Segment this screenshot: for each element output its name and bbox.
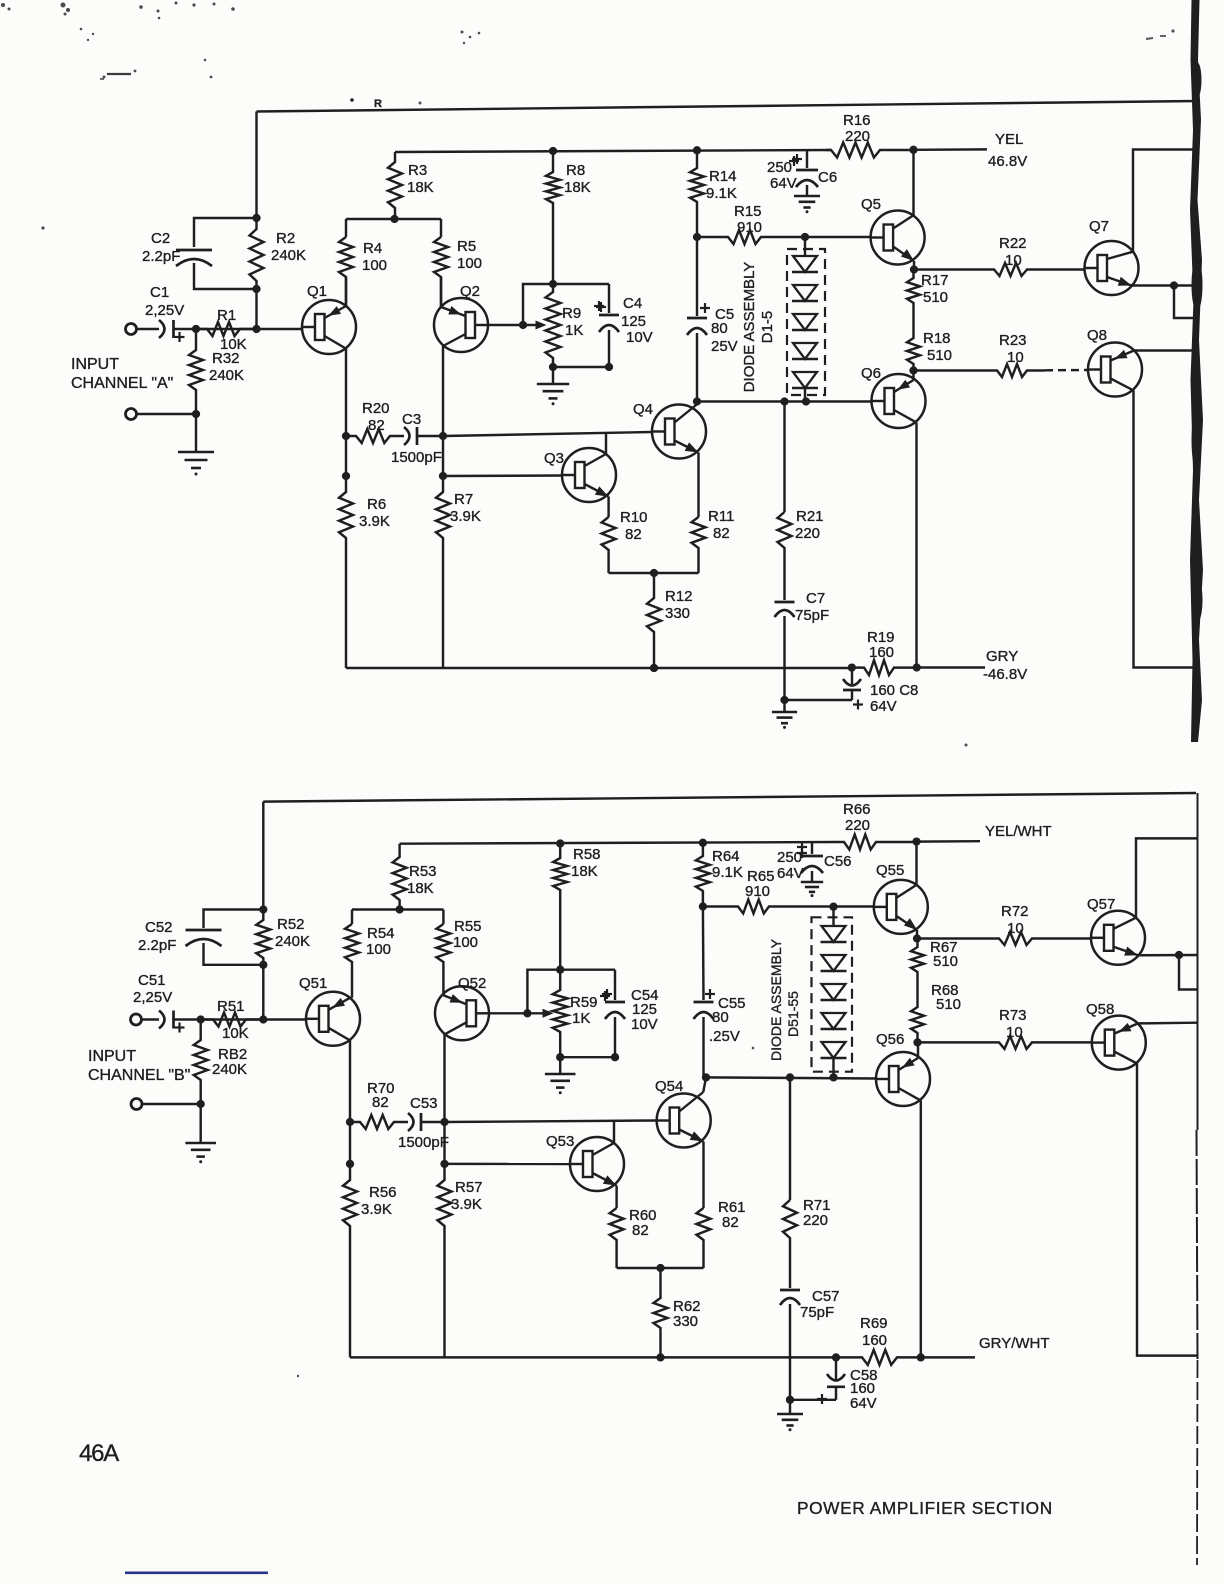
svg-text:Q52: Q52 (458, 975, 486, 992)
svg-text:82: 82 (372, 1094, 389, 1111)
svg-text:18K: 18K (407, 880, 434, 897)
svg-text:Q7: Q7 (1089, 218, 1109, 235)
svg-text:Q3: Q3 (544, 450, 564, 467)
svg-text:D51-55: D51-55 (785, 991, 801, 1037)
svg-text:Q5: Q5 (861, 196, 881, 213)
svg-text:80: 80 (711, 320, 728, 337)
svg-text:220: 220 (795, 525, 820, 542)
svg-text:64V: 64V (870, 698, 897, 715)
svg-text:R59: R59 (570, 994, 598, 1011)
svg-text:R54: R54 (367, 925, 395, 942)
svg-text:250: 250 (777, 849, 802, 866)
svg-text:R: R (374, 98, 382, 110)
svg-text:R4: R4 (363, 240, 382, 257)
svg-text:64V: 64V (777, 865, 804, 882)
svg-text:R66: R66 (843, 801, 871, 818)
svg-text:330: 330 (665, 605, 690, 622)
svg-text:3.9K: 3.9K (450, 508, 481, 525)
svg-text:82: 82 (368, 417, 385, 434)
svg-text:Q53: Q53 (546, 1133, 574, 1150)
svg-text:C53: C53 (410, 1095, 438, 1112)
svg-text:2,25V: 2,25V (145, 302, 184, 319)
svg-text:3.9K: 3.9K (451, 1196, 482, 1213)
svg-text:R32: R32 (212, 350, 240, 367)
svg-text:10: 10 (1006, 1024, 1023, 1041)
svg-text:R23: R23 (999, 332, 1027, 349)
svg-text:R2: R2 (276, 230, 295, 247)
svg-text:R8: R8 (566, 162, 585, 179)
svg-text:250: 250 (767, 159, 792, 176)
svg-text:C51: C51 (138, 972, 166, 989)
svg-text:C2: C2 (151, 230, 170, 247)
svg-text:9.1K: 9.1K (706, 185, 737, 202)
svg-text:R52: R52 (277, 916, 305, 933)
svg-text:Q56: Q56 (876, 1031, 904, 1048)
svg-text:R3: R3 (408, 162, 427, 179)
svg-text:GRY: GRY (986, 648, 1018, 665)
svg-text:18K: 18K (564, 179, 591, 196)
svg-text:3.9K: 3.9K (359, 513, 390, 530)
svg-text:2,25V: 2,25V (133, 989, 172, 1006)
svg-text:9.1K: 9.1K (712, 864, 743, 881)
svg-text:DIODE ASSEMBLY: DIODE ASSEMBLY (768, 938, 784, 1061)
svg-text:160: 160 (862, 1332, 887, 1349)
svg-text:C52: C52 (145, 919, 173, 936)
svg-text:R56: R56 (369, 1184, 397, 1201)
svg-text:Q51: Q51 (299, 975, 327, 992)
svg-text:910: 910 (745, 883, 770, 900)
svg-text:.25V: .25V (709, 1028, 740, 1045)
svg-text:Q55: Q55 (876, 862, 904, 879)
svg-text:C56: C56 (824, 853, 852, 870)
svg-text:C57: C57 (812, 1288, 840, 1305)
svg-text:POWER AMPLIFIER SECTION: POWER AMPLIFIER SECTION (797, 1498, 1053, 1518)
svg-text:220: 220 (803, 1212, 828, 1229)
svg-text:R51: R51 (217, 998, 245, 1015)
svg-text:R69: R69 (860, 1315, 888, 1332)
svg-text:1K: 1K (565, 322, 583, 339)
svg-text:C3: C3 (402, 411, 421, 428)
svg-text:160: 160 (869, 644, 894, 661)
svg-text:75pF: 75pF (800, 1304, 834, 1321)
svg-text:-46.8V: -46.8V (983, 666, 1027, 683)
svg-text:R55: R55 (454, 918, 482, 935)
svg-text:46A: 46A (79, 1440, 119, 1467)
svg-text:R5: R5 (457, 238, 476, 255)
svg-text:R64: R64 (712, 848, 740, 865)
svg-text:2.2pF: 2.2pF (138, 937, 176, 954)
svg-text:100: 100 (453, 934, 478, 951)
svg-text:R58: R58 (573, 846, 601, 863)
svg-text:82: 82 (625, 526, 642, 543)
svg-text:CHANNEL "A": CHANNEL "A" (71, 375, 173, 392)
svg-text:2.2pF: 2.2pF (142, 248, 180, 265)
svg-text:82: 82 (722, 1214, 739, 1231)
svg-text:GRY/WHT: GRY/WHT (979, 1335, 1050, 1352)
svg-text:R6: R6 (367, 496, 386, 513)
svg-text:75pF: 75pF (795, 607, 829, 624)
svg-text:18K: 18K (571, 863, 598, 880)
svg-text:INPUT: INPUT (88, 1048, 136, 1065)
svg-text:240K: 240K (209, 367, 244, 384)
svg-text:82: 82 (632, 1222, 649, 1239)
svg-text:DIODE ASSEMBLY: DIODE ASSEMBLY (741, 262, 758, 393)
svg-text:220: 220 (845, 817, 870, 834)
svg-text:18K: 18K (407, 179, 434, 196)
svg-text:Q8: Q8 (1087, 327, 1107, 344)
svg-text:Q2: Q2 (460, 283, 480, 300)
svg-text:Q6: Q6 (861, 365, 881, 382)
svg-text:10: 10 (1005, 252, 1022, 269)
svg-text:910: 910 (737, 219, 762, 236)
svg-text:R10: R10 (620, 509, 648, 526)
svg-text:INPUT: INPUT (71, 356, 119, 373)
svg-text:R12: R12 (665, 588, 693, 605)
svg-text:25V: 25V (711, 338, 738, 355)
svg-text:R20: R20 (362, 400, 390, 417)
svg-text:100: 100 (457, 255, 482, 272)
svg-text:R22: R22 (999, 235, 1027, 252)
svg-text:R18: R18 (923, 330, 951, 347)
svg-text:10: 10 (1007, 920, 1024, 937)
svg-text:1500pF: 1500pF (398, 1134, 449, 1151)
svg-text:R15: R15 (734, 203, 762, 220)
svg-text:160 C8: 160 C8 (870, 682, 918, 699)
svg-text:CHANNEL "B": CHANNEL "B" (88, 1067, 190, 1084)
svg-text:R14: R14 (709, 168, 737, 185)
svg-text:330: 330 (673, 1313, 698, 1330)
svg-text:10: 10 (1007, 349, 1024, 366)
svg-text:C7: C7 (806, 590, 825, 607)
svg-text:510: 510 (927, 347, 952, 364)
svg-text:240K: 240K (212, 1061, 247, 1078)
svg-text:510: 510 (933, 953, 958, 970)
svg-text:R53: R53 (409, 863, 437, 880)
svg-text:R11: R11 (708, 508, 734, 525)
svg-text:Q1: Q1 (307, 283, 327, 300)
svg-text:C6: C6 (818, 169, 837, 186)
svg-text:R7: R7 (454, 491, 473, 508)
svg-text:100: 100 (362, 257, 387, 274)
svg-text:240K: 240K (271, 247, 306, 264)
svg-text:D1-5: D1-5 (759, 311, 776, 344)
svg-text:64V: 64V (770, 175, 797, 192)
svg-text:YEL: YEL (995, 131, 1023, 148)
svg-text:10K: 10K (222, 1025, 249, 1042)
svg-text:R57: R57 (455, 1179, 483, 1196)
svg-text:220: 220 (845, 128, 870, 145)
svg-text:R73: R73 (999, 1007, 1027, 1024)
svg-text:Q54: Q54 (655, 1078, 683, 1095)
svg-text:R1: R1 (217, 307, 236, 324)
svg-text:46.8V: 46.8V (988, 153, 1027, 170)
svg-text:64V: 64V (850, 1395, 877, 1412)
svg-text:C4: C4 (623, 295, 642, 312)
svg-text:1K: 1K (572, 1010, 590, 1027)
svg-text:YEL/WHT: YEL/WHT (985, 823, 1052, 840)
svg-text:10V: 10V (631, 1016, 658, 1033)
svg-text:C1: C1 (150, 284, 169, 301)
svg-text:R21: R21 (796, 508, 824, 525)
svg-text:Q4: Q4 (633, 401, 653, 418)
svg-text:R9: R9 (562, 305, 581, 322)
svg-text:1500pF: 1500pF (391, 449, 442, 466)
svg-text:510: 510 (923, 289, 948, 306)
svg-text:240K: 240K (275, 933, 310, 950)
svg-text:R16: R16 (843, 112, 871, 129)
svg-text:R72: R72 (1001, 903, 1029, 920)
svg-text:82: 82 (713, 525, 730, 542)
svg-text:125: 125 (621, 313, 646, 330)
svg-text:100: 100 (366, 941, 391, 958)
svg-text:R17: R17 (921, 272, 949, 289)
svg-text:Q58: Q58 (1086, 1001, 1114, 1018)
svg-text:3.9K: 3.9K (361, 1201, 392, 1218)
svg-text:510: 510 (936, 996, 961, 1013)
svg-text:Q57: Q57 (1087, 896, 1115, 913)
svg-text:80: 80 (712, 1009, 729, 1026)
svg-text:10V: 10V (626, 329, 653, 346)
